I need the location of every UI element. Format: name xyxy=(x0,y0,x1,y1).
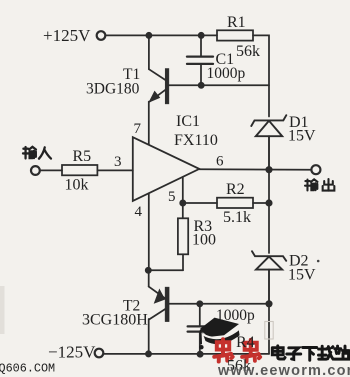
svg-text:R5: R5 xyxy=(73,148,92,165)
wire T2 base node line xyxy=(169,303,269,305)
wire R1 right to corner xyxy=(253,35,269,116)
op-amp U1 triangle xyxy=(133,137,200,201)
wire bottom rail xyxy=(103,353,269,355)
resistor R2 xyxy=(217,198,253,208)
wire pin 4 xyxy=(148,193,150,270)
svg-text:7: 7 xyxy=(134,121,142,137)
terminal +125V xyxy=(97,31,106,40)
svg-text:−125V: −125V xyxy=(48,343,96,362)
svg-text:www.eeworm.com: www.eeworm.com xyxy=(217,363,350,377)
svg-text:3CG180H: 3CG180H xyxy=(82,312,148,329)
svg-text:15V: 15V xyxy=(288,128,316,145)
node pin5 junction xyxy=(180,200,185,205)
label input CJK 输入 xyxy=(23,147,51,159)
svg-text:+125V: +125V xyxy=(43,26,91,45)
svg-text:100: 100 xyxy=(192,232,216,249)
node pin4/R3/T2 junction xyxy=(146,268,151,273)
node T2 base node right junction xyxy=(266,301,271,306)
svg-text:56k: 56k xyxy=(236,43,260,60)
resistor R4 (faint in scan) xyxy=(265,304,273,354)
scan smudge left edge xyxy=(0,286,5,334)
node C1 bottom junction xyxy=(199,83,204,88)
wire input to pin 3 xyxy=(40,169,62,171)
svg-text:5.1k: 5.1k xyxy=(223,209,251,226)
transistor T1 xyxy=(149,38,169,145)
svg-text:15V: 15V xyxy=(288,267,316,284)
node C1 top junction xyxy=(199,33,204,38)
node T1 collector junction xyxy=(146,33,151,38)
wire base node line (T1 base / C1 bottom / R1 right) xyxy=(169,84,269,86)
svg-text:R1: R1 xyxy=(227,14,246,31)
watermark graduation cap xyxy=(199,318,239,350)
svg-text:6: 6 xyxy=(216,154,224,170)
wire R2 right xyxy=(253,202,269,204)
resistor R3 xyxy=(178,203,188,270)
svg-text:IC1: IC1 xyxy=(176,113,200,130)
wire R3 bottom to pin4 node xyxy=(148,269,183,271)
transistor T2 xyxy=(149,270,169,354)
wire pin6 output xyxy=(199,168,311,171)
svg-text:3DG180: 3DG180 xyxy=(86,81,140,98)
svg-text:3: 3 xyxy=(114,154,122,170)
terminal -125V xyxy=(95,349,104,358)
svg-text:R4: R4 xyxy=(236,334,255,351)
resistor R1 xyxy=(217,30,253,40)
svg-text:4: 4 xyxy=(135,204,143,220)
label output CJK 输出 xyxy=(305,179,334,191)
stray dot after D2 xyxy=(317,260,320,263)
resistor R5 xyxy=(62,165,97,175)
node C2 top junction xyxy=(197,301,202,306)
svg-text:10k: 10k xyxy=(65,177,89,194)
watermark site name CJK 电子下载站 xyxy=(272,346,349,360)
svg-text:R2: R2 xyxy=(226,181,245,198)
wire pin 5 xyxy=(182,177,184,203)
terminal output xyxy=(311,165,320,174)
node C2 bottom junction xyxy=(198,352,203,357)
svg-text:5: 5 xyxy=(168,189,176,205)
watermark red logo 虫虫 xyxy=(214,339,260,361)
zener diode D2 xyxy=(252,251,286,304)
wire top rail xyxy=(106,34,218,36)
node R2 right junction xyxy=(266,200,271,205)
wire R5 to op-amp xyxy=(97,169,132,171)
capacitor C2 xyxy=(188,304,208,355)
svg-text:FX110: FX110 xyxy=(174,132,218,149)
svg-text:Q606.COM: Q606.COM xyxy=(0,362,55,376)
wire D1 to D2 xyxy=(268,170,270,253)
wire pin5 to R2 xyxy=(183,202,217,204)
zener diode D1 xyxy=(251,115,286,170)
svg-text:1000p: 1000p xyxy=(207,65,246,82)
node T2 collector junction xyxy=(146,351,151,356)
node output junction xyxy=(266,167,271,172)
capacitor C1 xyxy=(187,35,213,85)
terminal input xyxy=(31,166,40,175)
